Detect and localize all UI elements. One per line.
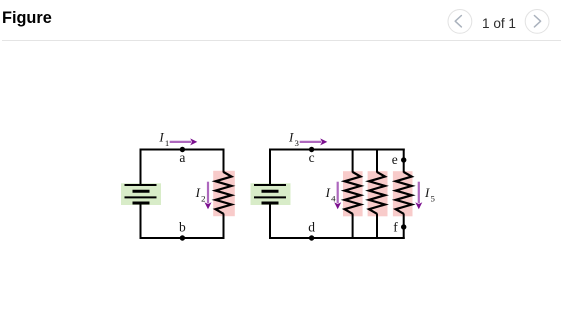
branch wire R4 top (right edge) — [403, 149, 405, 173]
resistor R4 zigzag — [396, 172, 412, 214]
header divider — [2, 40, 561, 42]
node a dot — [180, 147, 185, 152]
current arrow I2 — [207, 182, 209, 204]
pager next button — [525, 10, 549, 34]
svg-text:e: e — [392, 152, 398, 167]
battery B2 highlight — [251, 183, 291, 205]
wire left lower (circuit 1) — [140, 203, 142, 239]
resistor R1 highlight — [213, 171, 235, 216]
node f dot — [401, 224, 406, 229]
wire left upper (circuit 1) — [140, 149, 142, 186]
current arrow I4 — [337, 182, 339, 204]
resistor R2 zigzag — [345, 172, 361, 214]
svg-text:I: I — [325, 185, 331, 200]
svg-text:I: I — [288, 130, 294, 145]
svg-text:a: a — [179, 150, 185, 165]
svg-text:f: f — [393, 219, 398, 234]
battery B1 highlight — [121, 183, 161, 205]
node b dot — [180, 235, 185, 240]
node e dot — [401, 157, 406, 162]
current arrow I5 — [418, 182, 420, 204]
node d dot — [309, 235, 314, 240]
resistor R2 highlight — [343, 171, 363, 216]
wire top (circuit 2) — [269, 149, 405, 151]
wire top (circuit 1) — [140, 149, 225, 151]
wire bottom (circuit 2) — [269, 237, 405, 239]
resistor R3 highlight — [368, 171, 388, 216]
branch wire R4 bottom (right edge) — [403, 214, 405, 240]
current arrow I1 — [170, 141, 192, 143]
pager prev button — [448, 10, 472, 34]
battery B2 — [254, 185, 286, 203]
svg-text:b: b — [179, 219, 186, 234]
wire left lower (circuit 2) — [269, 203, 271, 239]
svg-text:c: c — [309, 150, 315, 165]
svg-text:I: I — [158, 130, 164, 145]
svg-text:3: 3 — [295, 138, 300, 148]
svg-text:I: I — [195, 185, 201, 200]
wire bottom (circuit 1) — [140, 237, 225, 239]
svg-text:2: 2 — [201, 193, 205, 203]
battery B1 — [125, 185, 157, 203]
resistor R3 zigzag — [369, 172, 385, 214]
svg-text:5: 5 — [431, 193, 436, 203]
current arrow I3 — [300, 141, 322, 143]
node c dot — [309, 147, 314, 152]
wire right upper (circuit 1) — [223, 149, 225, 173]
svg-text:d: d — [308, 219, 315, 234]
svg-text:1 of 1: 1 of 1 — [482, 16, 516, 31]
resistor R1 zigzag — [216, 172, 232, 214]
branch wire R3 bottom — [376, 214, 378, 240]
svg-text:4: 4 — [331, 193, 336, 203]
wire left upper (circuit 2) — [269, 149, 271, 186]
svg-text:I: I — [424, 185, 430, 200]
branch wire R2 bottom — [352, 214, 354, 240]
svg-text:1: 1 — [165, 138, 169, 148]
branch wire R3 top — [376, 149, 378, 173]
branch wire R2 top — [352, 149, 354, 173]
resistor R4 highlight — [393, 171, 413, 216]
wire right lower (circuit 1) — [223, 214, 225, 240]
svg-text:Figure: Figure — [2, 9, 52, 27]
